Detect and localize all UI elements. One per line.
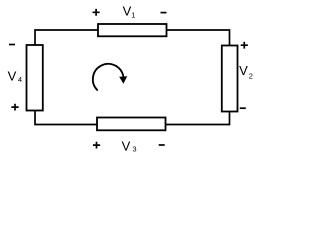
polarity - of V1 bbox=[161, 12, 167, 14]
wire top-right segment bbox=[167, 30, 230, 45]
label V4 bbox=[8, 68, 22, 84]
polarity + of V2 bbox=[241, 42, 248, 49]
svg-text:V: V bbox=[8, 68, 17, 83]
wire bottom-right segment bbox=[166, 112, 230, 125]
svg-text:4: 4 bbox=[18, 75, 22, 84]
polarity - of V2 bbox=[240, 107, 246, 109]
source V2 box bbox=[222, 46, 238, 112]
polarity - of V4 bbox=[9, 44, 15, 46]
svg-text:V: V bbox=[122, 138, 131, 153]
svg-text:1: 1 bbox=[131, 10, 135, 19]
wire bottom-left segment bbox=[35, 111, 97, 125]
svg-text:V: V bbox=[123, 4, 132, 19]
polarity + of V3 bbox=[93, 142, 100, 149]
source V3 box bbox=[97, 118, 166, 131]
label V2 bbox=[239, 63, 253, 80]
loop current arrow (clockwise) bbox=[93, 64, 127, 90]
source V4 box bbox=[27, 45, 43, 111]
svg-text:2: 2 bbox=[249, 71, 253, 80]
wire top-left segment bbox=[35, 30, 98, 45]
source V1 box bbox=[98, 24, 167, 36]
label V1 bbox=[123, 4, 136, 20]
svg-text:3: 3 bbox=[132, 144, 136, 153]
svg-text:V: V bbox=[239, 63, 248, 78]
polarity + of V1 bbox=[93, 9, 100, 16]
polarity - of V3 bbox=[159, 144, 165, 146]
polarity + of V4 bbox=[11, 104, 18, 111]
label V3 bbox=[122, 138, 137, 153]
